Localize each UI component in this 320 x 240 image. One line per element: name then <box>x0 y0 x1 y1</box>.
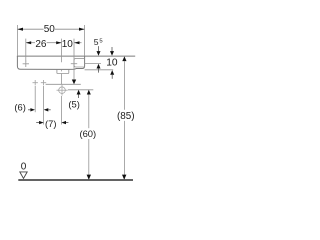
fixing hole cross left <box>23 61 29 67</box>
drain center line through basin to (7) row <box>61 74 63 85</box>
drain tick inside box <box>61 70 63 72</box>
svg-text:(7): (7) <box>45 118 56 129</box>
zero level datum triangle <box>20 172 27 179</box>
svg-text:10: 10 <box>106 57 118 68</box>
ext line right x=84.6 above basin <box>84 25 86 56</box>
svg-text:(6): (6) <box>14 102 25 113</box>
svg-text:0: 0 <box>21 161 27 172</box>
svg-text:(85): (85) <box>117 111 135 122</box>
small crosses under basin (6) <box>33 80 47 85</box>
tap hole cross right <box>71 61 77 67</box>
drain level line y=89.8 <box>68 89 93 91</box>
ext line x=61.6 drain center upper <box>61 39 63 63</box>
5.5 ref line at tap hole level right <box>85 63 101 65</box>
(5) lower arrow <box>77 90 81 98</box>
basin top rim line extended right <box>17 55 135 57</box>
svg-text:(60): (60) <box>79 128 96 139</box>
bottom ref line right y=69.8 <box>85 69 114 71</box>
(6) dimension arrows <box>28 108 51 111</box>
dim 26 arrows <box>26 41 31 44</box>
ext line x=74.0 tap hole <box>73 39 75 80</box>
(60) floor arrow <box>87 175 91 180</box>
(60) top arrow <box>87 90 91 95</box>
dim 10 vertical bottom arrow <box>110 70 114 79</box>
(85) dimension line <box>123 61 125 110</box>
dim 26/10 row line <box>26 42 82 44</box>
(85) floor arrow <box>122 175 126 180</box>
dim 5.5 bottom arrow <box>97 64 101 73</box>
svg-text:(5): (5) <box>68 99 79 110</box>
dim 50 line <box>17 28 84 30</box>
svg-text:10: 10 <box>62 39 74 50</box>
ext line left x=17.4 above basin <box>16 25 18 56</box>
svg-text:50: 50 <box>44 24 56 35</box>
(6) extension lines down from crosses <box>34 86 36 112</box>
svg-text:26: 26 <box>35 39 47 50</box>
(85) top arrow <box>122 56 126 61</box>
floor line <box>18 179 133 181</box>
ext line x=25.8 <box>25 39 27 62</box>
dim 10 vertical top arrow <box>110 47 114 56</box>
drain boss box under basin <box>57 70 69 74</box>
(5) upper arrow <box>72 80 76 85</box>
drain connector symbol (circle cross) <box>57 85 68 96</box>
svg-text:5: 5 <box>99 38 103 44</box>
svg-text:5: 5 <box>94 37 99 47</box>
tap deck ledge <box>74 58 85 67</box>
dim 10 outside arrow <box>74 41 79 44</box>
(60) dimension line <box>88 95 90 129</box>
dim 50 arrows <box>17 28 23 31</box>
washbasin outline <box>17 56 84 69</box>
dim 5.5 top arrow <box>97 46 101 56</box>
(7) dimension arrows <box>36 121 68 124</box>
trap level line y=84.3 <box>46 83 81 85</box>
